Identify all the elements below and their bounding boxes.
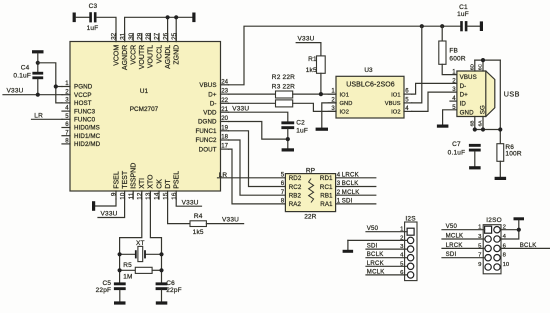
svg-text:V33U: V33U — [298, 36, 315, 43]
svg-text:BCLK: BCLK — [367, 251, 384, 258]
svg-text:V33U: V33U — [7, 87, 24, 94]
wire C1 to ground — [467, 25, 479, 27]
svg-text:25: 25 — [171, 32, 178, 40]
wire pin 9 FSEL to ground — [95, 199, 116, 206]
wire U3 GND to ground — [322, 103, 336, 128]
svg-text:CK: CK — [156, 179, 163, 189]
svg-text:10: 10 — [503, 262, 510, 268]
svg-text:LRCK: LRCK — [342, 172, 359, 179]
svg-text:3: 3 — [331, 105, 335, 112]
svg-text:24: 24 — [221, 78, 228, 85]
svg-text:D-: D- — [460, 83, 467, 90]
svg-text:1uF: 1uF — [296, 127, 308, 134]
connector USB body — [457, 71, 495, 117]
svg-text:22: 22 — [221, 97, 228, 104]
wire I2SO pin 6 BCLK — [500, 247, 549, 249]
ground below R6 — [495, 177, 507, 180]
wire LR to pin 5 — [32, 118, 63, 120]
svg-text:11: 11 — [128, 192, 135, 199]
wire shield top — [475, 59, 501, 61]
wire pin 22 D- to R3 — [229, 102, 276, 104]
svg-text:FUNC0: FUNC0 — [74, 117, 96, 124]
svg-text:LR: LR — [34, 113, 43, 120]
svg-text:RD1: RD1 — [320, 175, 333, 182]
wire pin 26 AGNDL to rail — [167, 17, 169, 41]
wire FUNC2 to RP RB2 — [229, 140, 286, 195]
svg-text:10: 10 — [119, 192, 126, 200]
svg-text:RC1: RC1 — [320, 184, 333, 191]
svg-text:MCLK: MCLK — [446, 233, 464, 240]
svg-text:IO2: IO2 — [340, 110, 349, 116]
wire gnd to C3 — [76, 16, 90, 18]
ground at I2S pin 2 — [343, 250, 354, 253]
wire I2S pin 2 to ground — [347, 240, 349, 249]
svg-text:6B: 6B — [469, 121, 475, 127]
svg-text:VBUS: VBUS — [460, 74, 477, 81]
ferrite bead FB — [441, 26, 443, 41]
svg-text:SDI: SDI — [367, 243, 378, 250]
junction FB top — [440, 24, 444, 28]
U1 bottom pins 9-16 stubs numbers and names — [115, 191, 117, 199]
svg-text:I2S: I2S — [405, 216, 416, 223]
wire C6 to ground — [161, 290, 163, 301]
wire DOUT to RP RA2 — [229, 149, 286, 204]
junction U3 VBUS drop — [420, 24, 424, 28]
svg-text:GND: GND — [460, 109, 474, 116]
SG vertical wire — [499, 60, 501, 144]
svg-text:31: 31 — [119, 32, 126, 40]
I2SO pads — [485, 226, 492, 233]
svg-text:VCCL: VCCL — [156, 45, 163, 64]
svg-text:20: 20 — [221, 115, 228, 122]
svg-text:R2 22R: R2 22R — [272, 74, 295, 81]
svg-text:DT: DT — [165, 179, 172, 189]
svg-text:HOST: HOST — [74, 100, 92, 107]
wire pin 24 VBUS to top rail — [229, 26, 461, 85]
svg-text:C6: C6 — [166, 280, 175, 287]
svg-text:U1: U1 — [140, 88, 149, 95]
svg-text:RA2: RA2 — [289, 201, 302, 208]
wire pin 16 PSEL to V33U — [176, 199, 201, 206]
svg-text:XTO: XTO — [148, 174, 155, 189]
svg-text:FSEL: FSEL — [113, 171, 120, 189]
svg-text:VCCP: VCCP — [74, 92, 92, 99]
svg-text:9: 9 — [478, 262, 481, 268]
svg-text:IO1: IO1 — [340, 92, 349, 98]
svg-text:V33U: V33U — [222, 217, 239, 224]
junction C4 on V33U rail — [36, 93, 40, 97]
svg-text:MCLK: MCLK — [367, 268, 385, 275]
junction R5 right — [159, 268, 163, 272]
ground below C5 — [114, 301, 126, 304]
svg-text:RP: RP — [306, 167, 316, 174]
svg-text:100R: 100R — [505, 151, 521, 158]
junction at I2SO pin 2 row — [517, 228, 521, 232]
svg-text:1uF: 1uF — [457, 11, 469, 18]
svg-text:21: 21 — [221, 106, 228, 113]
svg-text:15: 15 — [162, 192, 169, 200]
svg-text:AGNDL: AGNDL — [165, 45, 172, 69]
wire C7 to ground — [474, 152, 476, 167]
svg-text:C3: C3 — [89, 3, 98, 10]
capacitor C1 — [460, 21, 463, 31]
wire FUNC1 to RP RC2 — [229, 131, 286, 187]
svg-text:D+: D+ — [460, 92, 469, 99]
U3 right pins 6-4 — [404, 93, 412, 95]
svg-text:17: 17 — [221, 143, 228, 150]
wire R1 to D+ line — [320, 73, 322, 94]
svg-text:C1: C1 — [459, 4, 468, 11]
wire FB to USB pin 1 — [442, 64, 457, 74]
ground below C2 — [282, 148, 294, 151]
capacitor C2 — [281, 121, 294, 124]
svg-text:FUNC3: FUNC3 — [74, 108, 96, 115]
wire U3 IO1 to USB D- — [412, 83, 457, 94]
wire R2 to U3 IO1 — [293, 93, 336, 95]
wire U3 VBUS up to rail — [412, 26, 422, 103]
resistor network RP body — [285, 174, 335, 212]
svg-text:26: 26 — [162, 32, 169, 40]
junction shield bottom — [481, 127, 485, 131]
ground below U3 GND — [316, 128, 328, 131]
ground right of C1 — [480, 21, 483, 31]
svg-text:6A: 6A — [478, 120, 484, 127]
USB shield top pins 6D 6C — [474, 60, 476, 71]
junction crystal right — [159, 252, 163, 256]
wire V33U rail to pin 2 VCCP — [3, 94, 62, 96]
svg-text:R1: R1 — [308, 56, 317, 63]
junction SG at bottom wire — [498, 127, 502, 131]
svg-text:PGND: PGND — [74, 84, 93, 91]
svg-text:DOUT: DOUT — [199, 146, 217, 153]
junction R5 left — [118, 268, 122, 272]
svg-text:C4: C4 — [21, 64, 30, 71]
svg-text:V50: V50 — [367, 225, 379, 232]
svg-text:18: 18 — [221, 134, 228, 141]
wire U3 IO2 to USB D+ — [412, 92, 457, 111]
wire R6 to ground — [499, 161, 501, 177]
wire USB GND to ground — [443, 110, 457, 125]
svg-text:XT: XT — [136, 240, 145, 247]
svg-text:C7: C7 — [452, 141, 461, 148]
svg-text:22pF: 22pF — [166, 287, 182, 294]
wire pin 10 TEST to V33U — [98, 199, 125, 218]
svg-text:ISSPND: ISSPND — [131, 163, 138, 189]
wire C5 to ground — [119, 290, 121, 301]
wire C3 to pin 32 VCOM — [97, 17, 117, 41]
ground above C4 — [32, 50, 44, 53]
svg-text:1k5: 1k5 — [306, 67, 317, 74]
wire R3 to U3 IO2 — [293, 103, 336, 111]
svg-text:V33U: V33U — [182, 199, 199, 206]
svg-text:C2: C2 — [296, 119, 305, 126]
svg-text:FUNC2: FUNC2 — [195, 137, 217, 144]
capacitor C5 — [114, 282, 126, 285]
resistor R6 — [497, 144, 504, 162]
wire ground to node A — [37, 53, 39, 71]
svg-text:RD2: RD2 — [289, 175, 302, 182]
U3 left pins 1-3 — [328, 93, 336, 95]
svg-text:HID0/MS: HID0/MS — [74, 125, 100, 132]
svg-text:VBUS: VBUS — [385, 101, 401, 107]
wire C4 to V33U rail — [37, 79, 39, 95]
svg-text:AGNDR: AGNDR — [122, 45, 129, 70]
svg-text:VDD: VDD — [203, 109, 217, 116]
op-amp U3 USBLC6-2SO6 body — [336, 76, 404, 118]
wire pin 13 XTO down-right — [150, 199, 161, 282]
svg-text:D+: D+ — [208, 91, 217, 98]
svg-text:FUNC1: FUNC1 — [195, 128, 217, 135]
top analog ground rail wire — [125, 17, 193, 41]
resistor R5 — [120, 269, 136, 271]
junction at pin 1 branch — [54, 84, 58, 88]
svg-text:HID2/MD: HID2/MD — [74, 141, 101, 148]
wire C2 to junction — [287, 129, 289, 148]
svg-text:23: 23 — [221, 88, 228, 95]
svg-text:600R: 600R — [449, 55, 465, 62]
junction R1 on D+ — [319, 92, 323, 96]
svg-text:SG: SG — [479, 105, 486, 114]
svg-text:0.1uF: 0.1uF — [448, 150, 466, 157]
svg-text:VCOM: VCOM — [113, 45, 120, 66]
svg-text:0.1uF: 0.1uF — [13, 73, 31, 80]
svg-text:RC2: RC2 — [289, 184, 302, 191]
svg-text:14: 14 — [154, 192, 161, 200]
svg-text:9: 9 — [111, 192, 118, 196]
resistor R4 — [190, 221, 206, 227]
svg-text:32: 32 — [111, 32, 118, 40]
svg-text:29: 29 — [137, 32, 144, 40]
wire shield bottom — [475, 129, 501, 131]
svg-text:V33U: V33U — [232, 106, 249, 113]
wire ground to I2SO pins 2 and 4 — [500, 220, 519, 239]
svg-text:I2SO: I2SO — [486, 217, 502, 224]
svg-text:12: 12 — [137, 192, 144, 200]
svg-text:SDI: SDI — [446, 251, 457, 258]
junction C7 top — [473, 127, 477, 131]
svg-text:USB: USB — [504, 89, 520, 98]
wire node A to pins 1 and 3 — [38, 63, 62, 103]
svg-text:DGND: DGND — [198, 119, 217, 126]
svg-text:VOUTR: VOUTR — [139, 45, 146, 70]
svg-text:FB: FB — [449, 48, 458, 55]
svg-text:LRCK: LRCK — [446, 242, 463, 249]
U1 left pins 1-8 stubs and numbers — [62, 86, 70, 88]
svg-text:VCCR: VCCR — [131, 45, 138, 65]
svg-text:19: 19 — [221, 124, 228, 131]
svg-text:LRCK: LRCK — [367, 260, 384, 267]
ground at pin 9 — [92, 201, 95, 211]
connector I2S body — [405, 222, 417, 281]
svg-text:22R: 22R — [304, 213, 316, 220]
junction shield top — [481, 58, 485, 62]
svg-text:HID1/MC: HID1/MC — [74, 133, 101, 140]
svg-text:BCLK: BCLK — [342, 180, 359, 187]
svg-text:RA1: RA1 — [320, 201, 333, 208]
svg-text:GND: GND — [340, 101, 353, 107]
svg-text:28: 28 — [145, 32, 152, 40]
U1 top pins 32-25 stubs numbers and names — [115, 34, 117, 42]
svg-text:ZGND: ZGND — [174, 45, 181, 65]
capacitor C7 — [469, 144, 481, 147]
wire LR to RP pin 5 — [218, 177, 286, 179]
svg-text:6C: 6C — [478, 64, 484, 71]
svg-text:ID: ID — [460, 101, 467, 108]
wire pin 21 VDD with V33U label to C2 — [229, 112, 288, 121]
svg-text:D-: D- — [210, 101, 217, 108]
svg-text:R4: R4 — [194, 213, 203, 220]
svg-text:IO2: IO2 — [391, 110, 400, 116]
svg-text:6D: 6D — [469, 64, 475, 71]
U1 right pins 24-17 stubs and numbers — [221, 84, 229, 86]
svg-text:TEST: TEST — [122, 170, 129, 189]
svg-text:27: 27 — [154, 32, 161, 40]
svg-text:RB1: RB1 — [320, 193, 333, 200]
resistor R3 — [276, 100, 293, 107]
svg-text:VOUTL: VOUTL — [148, 45, 155, 68]
svg-text:C5: C5 — [102, 280, 111, 287]
junction C2 bottom — [286, 137, 290, 141]
svg-text:IO1: IO1 — [391, 92, 400, 98]
svg-text:PSEL: PSEL — [174, 171, 181, 189]
connector I2SO body — [483, 225, 501, 274]
wire pin 25 ZGND to rail — [175, 17, 177, 41]
svg-text:SDI: SDI — [342, 198, 353, 205]
svg-text:R5: R5 — [123, 262, 132, 269]
svg-text:16: 16 — [171, 192, 178, 200]
svg-text:1M: 1M — [123, 274, 132, 281]
ground at C3 left — [73, 13, 76, 23]
svg-text:R3 22R: R3 22R — [272, 83, 295, 90]
I2S pin pads — [407, 228, 414, 235]
ground at top rail right — [192, 13, 195, 23]
svg-text:BCLK: BCLK — [520, 242, 537, 249]
svg-text:U3: U3 — [364, 67, 373, 74]
junction at ZGND — [174, 15, 178, 19]
wire R4 to V33U — [206, 223, 243, 225]
svg-text:XTI: XTI — [139, 178, 146, 189]
svg-text:1k5: 1k5 — [193, 229, 204, 236]
svg-text:8: 8 — [503, 253, 507, 259]
op-amp U1 PCM2707 body — [70, 42, 221, 192]
svg-text:V33U: V33U — [101, 211, 118, 218]
wire pin 20 DGND to C2 bottom — [229, 122, 288, 140]
junction crystal left — [118, 252, 122, 256]
USB shield bottom pins 6B 6A — [474, 117, 476, 130]
resistor R2 — [276, 91, 293, 98]
ground below C6 — [156, 301, 168, 304]
junction node A — [36, 61, 40, 65]
ground below USB GND — [437, 125, 449, 128]
capacitor C4 — [32, 72, 43, 75]
svg-text:13: 13 — [145, 192, 152, 200]
capacitor C6 — [156, 282, 168, 285]
wire pin 12 XTI down-left — [120, 199, 142, 282]
junction at AGNDL — [166, 15, 170, 19]
ground above I2SO pin 2 — [514, 217, 525, 220]
svg-text:V50: V50 — [446, 223, 458, 230]
svg-text:PCM2707: PCM2707 — [130, 106, 159, 113]
capacitor C3 — [89, 12, 92, 22]
wire pin 15 DT to R4 — [168, 199, 190, 224]
ground below C7 — [469, 166, 481, 169]
wire pin 23 D+ to R2 — [229, 93, 276, 95]
resistor R1 — [320, 43, 322, 56]
svg-text:VBUS: VBUS — [199, 82, 216, 89]
svg-text:USBLC6-2SO6: USBLC6-2SO6 — [346, 82, 395, 89]
svg-text:1uF: 1uF — [87, 25, 99, 32]
RP internal resistor symbol — [309, 179, 314, 203]
svg-text:RB2: RB2 — [289, 193, 302, 200]
svg-text:30: 30 — [128, 32, 135, 40]
svg-text:1: 1 — [331, 88, 335, 95]
svg-text:22pF: 22pF — [96, 287, 112, 294]
svg-text:MCLK: MCLK — [342, 189, 360, 196]
